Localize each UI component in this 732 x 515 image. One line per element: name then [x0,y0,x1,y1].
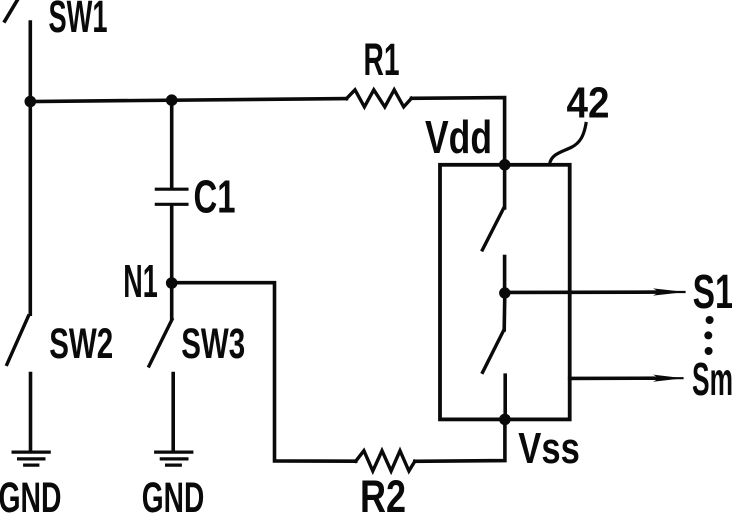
wire SW2 lower terminal [29,374,33,450]
junction dot C1 column [166,94,178,106]
switch inside block lower [483,293,506,419]
resistor R1 [347,90,412,107]
switch SW3 blade [149,320,172,367]
wire C1 branch upper [170,100,174,188]
wire N1 to bottom rail [172,283,356,462]
switch inside block upper [482,165,504,293]
switch SW2 blade [7,316,29,364]
svg-text:Sm: Sm [692,353,732,405]
arrowhead Sm [653,375,684,382]
wire SW3 lower terminal [171,374,175,450]
svg-text:SW1: SW1 [49,0,108,42]
capacitor C1 [156,189,187,204]
svg-text:C1: C1 [194,170,236,222]
svg-text:R2: R2 [360,471,406,515]
svg-text:GND: GND [142,474,205,515]
arrowhead S1 [653,288,686,295]
wire R2 to Vss corner [415,419,505,461]
svg-text:SW3: SW3 [181,320,245,368]
svg-text:Vdd: Vdd [425,111,492,163]
junction dot Vdd node [499,159,511,171]
svg-text:R1: R1 [364,34,400,85]
wire C1 branch lower [170,206,174,319]
wire left vertical from SW1 [28,22,32,314]
switch SW1 blade [5,0,18,21]
leader line from 42 to block [550,124,587,165]
svg-text:GND: GND [0,474,62,515]
wire top rail right segment with corner down to Vdd [412,98,505,165]
resistor R2 [356,451,415,471]
wire Sm output [570,376,660,380]
block 42 box [440,165,570,420]
junction dot S1 node [499,287,510,298]
ground symbol for SW2 [13,452,49,465]
ground symbol for SW3 [156,452,192,465]
svg-text:SW2: SW2 [49,320,113,368]
wire S1 output [505,290,660,294]
junction dot SW1/top-rail [25,96,37,108]
svg-text:42: 42 [567,78,610,127]
svg-text:Vss: Vss [518,424,580,473]
svg-text:S1: S1 [693,266,732,319]
junction dot Vss node [499,414,511,426]
svg-text:N1: N1 [123,255,158,307]
node N1 junction dot [166,277,178,289]
ellipsis dots between S1 and Sm [704,316,713,355]
wire top rail left segment [30,99,346,102]
